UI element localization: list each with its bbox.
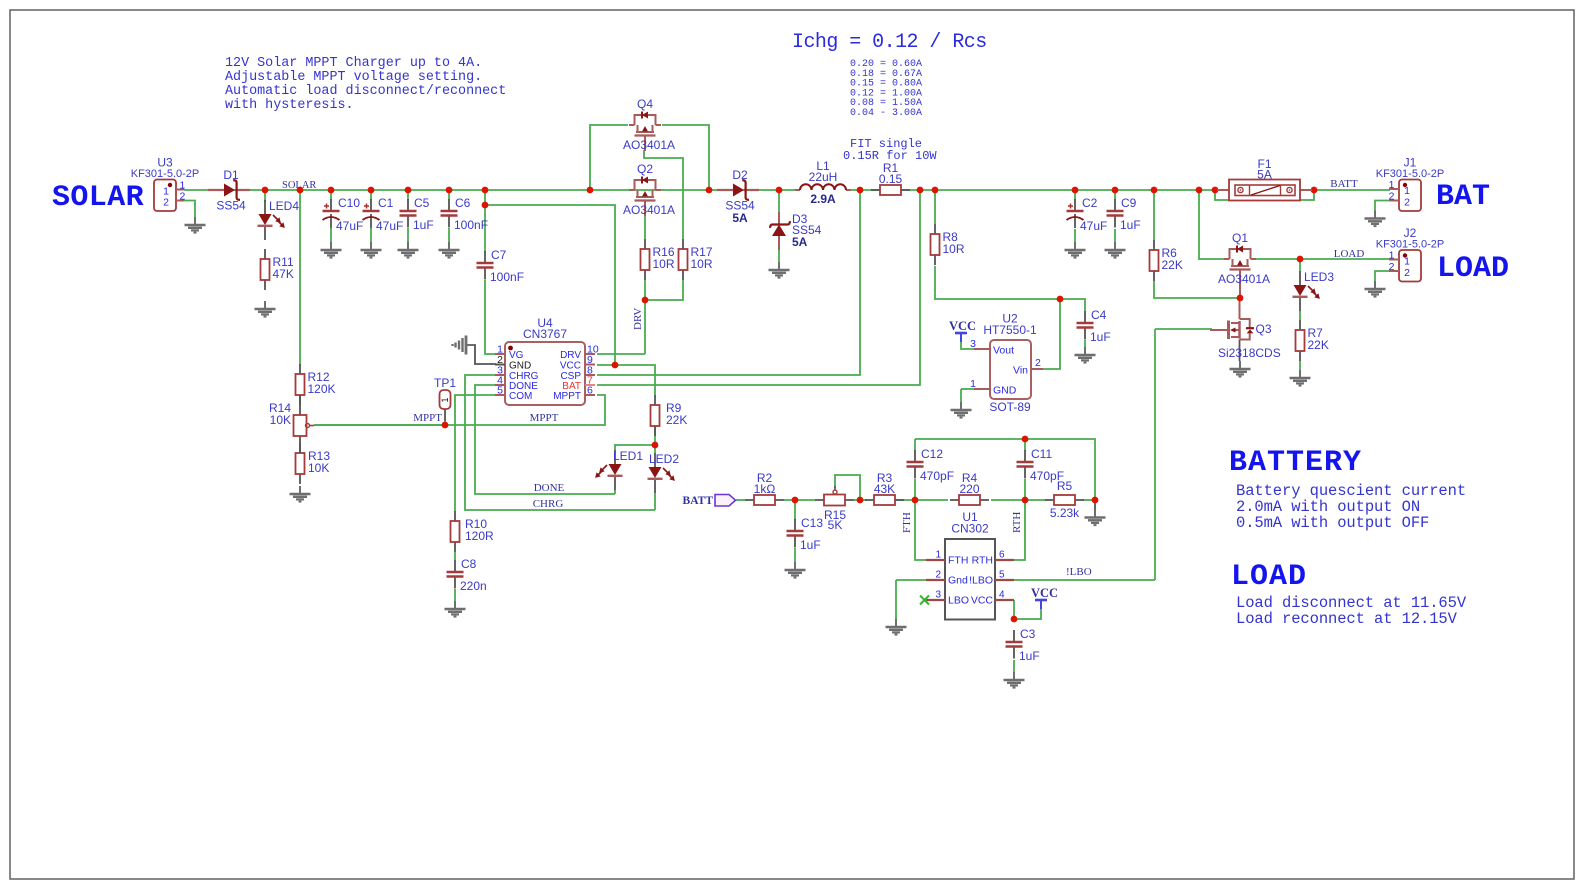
capacitor C13 1uF — [787, 516, 824, 552]
svg-text:2: 2 — [1035, 357, 1041, 369]
svg-text:3: 3 — [970, 338, 976, 350]
svg-text:1kΩ: 1kΩ — [754, 482, 776, 496]
svg-text:Gnd: Gnd — [948, 575, 968, 587]
diode D3 SS54 5A — [770, 212, 822, 250]
junction Q1 drop — [1196, 187, 1203, 194]
junction Q4 left — [587, 187, 594, 194]
wire R4 to R5 — [991, 499, 1046, 501]
wire D3 branch top — [778, 190, 780, 212]
wire feedback top loop — [915, 439, 1095, 500]
wire C2 stub — [1074, 190, 1076, 200]
wire R3 to R4 — [896, 499, 948, 501]
wire FTH drop — [915, 500, 926, 560]
wire C12 top — [914, 439, 916, 451]
connector J1 KF301-5.0-2P — [1376, 156, 1444, 212]
svg-text:5.23k: 5.23k — [1050, 506, 1080, 520]
svg-text:43K: 43K — [874, 482, 895, 496]
wire R15 wiper loop — [835, 475, 860, 500]
junction fuse left — [1212, 187, 1219, 194]
wire R16 bottom to DRV — [644, 280, 646, 354]
junction DRV node — [642, 297, 649, 304]
svg-text:LBO: LBO — [948, 595, 969, 607]
wire Vin drop — [1043, 299, 1060, 369]
svg-text:5A: 5A — [792, 235, 808, 249]
junction Q4 right — [706, 187, 713, 194]
svg-text:1uF: 1uF — [1090, 330, 1111, 344]
wire C6 to ground — [448, 228, 450, 242]
svg-text:22K: 22K — [666, 413, 687, 427]
wire MPPT wiper — [314, 424, 445, 426]
wire SOLAR net drop to R12 — [299, 190, 301, 365]
transistor Q1 AO3401A — [1224, 246, 1256, 286]
wire J1 pin2 to ground — [1375, 201, 1390, 212]
svg-text:47K: 47K — [273, 267, 294, 281]
wire C10 stub — [330, 190, 332, 200]
wire C6 stub — [448, 190, 450, 200]
ground U1 — [886, 619, 907, 635]
svg-text:3: 3 — [935, 590, 941, 601]
svg-text:1: 1 — [1404, 185, 1410, 197]
svg-text:TP1: TP1 — [434, 376, 456, 390]
ground C1 — [361, 242, 382, 258]
wire Q2 gate to R16 — [644, 214, 646, 239]
svg-text:1uF: 1uF — [1019, 649, 1040, 663]
transistor Q3 Si2318CDS — [1210, 319, 1281, 360]
transistor Q4 AO3401A — [629, 112, 661, 152]
wire RTH drop — [1014, 500, 1025, 560]
wire C8 to ground — [454, 589, 456, 601]
svg-text:2: 2 — [1404, 197, 1410, 209]
wire Q4 gate to R17 — [644, 150, 683, 239]
resistor R16 10R — [641, 239, 675, 280]
diode D1 SS54 — [208, 168, 250, 213]
wire LED1 to DONE — [614, 490, 616, 494]
wire Q1 gate to Q3 drain — [1239, 298, 1241, 319]
ground U3 — [185, 217, 206, 233]
svg-text:Vin: Vin — [1013, 365, 1028, 377]
svg-text:1: 1 — [440, 397, 450, 402]
ground C3 — [1004, 672, 1025, 688]
svg-text:5: 5 — [999, 570, 1005, 581]
wire LED3 branch — [1299, 259, 1301, 271]
svg-text:47uF: 47uF — [376, 219, 403, 233]
ground U2 — [951, 402, 972, 418]
ground Q3 — [1230, 361, 1251, 377]
svg-text:2: 2 — [1404, 267, 1410, 279]
svg-text:22uH: 22uH — [809, 170, 838, 184]
svg-text:BATT: BATT — [1330, 178, 1358, 190]
capacitor C3 1uF — [1006, 627, 1040, 663]
junction CSP tap — [857, 187, 864, 194]
wire U4 pin2 GND — [466, 345, 496, 364]
diode D2 SS54 5A — [717, 168, 759, 225]
svg-text:100nF: 100nF — [490, 270, 524, 284]
wire R8 bottom to C4 — [935, 266, 1085, 311]
wire R2 to R15 — [784, 499, 815, 501]
wire U1 pin4 VCC — [1013, 600, 1015, 619]
svg-text:1: 1 — [970, 378, 976, 390]
svg-text:C4: C4 — [1091, 308, 1107, 322]
junction R5 gnd — [1092, 497, 1099, 504]
svg-text:SS54: SS54 — [216, 199, 246, 213]
junction C13 — [792, 497, 799, 504]
wire Q3 source to ground — [1239, 340, 1241, 362]
transistor Q2 AO3401A — [629, 177, 661, 217]
wire C5 stub — [407, 190, 409, 200]
junction fuse right — [1311, 187, 1318, 194]
wire VCC net to U4 pin9 — [485, 205, 615, 365]
svg-text:12V Solar MPPT Charger up to 4: 12V Solar MPPT Charger up to 4A. — [225, 56, 482, 71]
capacitor C10 47uF — [323, 196, 364, 233]
wire U4 pin10 DRV — [597, 353, 645, 355]
wire R5 to ground node — [1083, 499, 1095, 501]
svg-text:4: 4 — [999, 590, 1005, 601]
svg-text:RTH: RTH — [1011, 512, 1023, 533]
svg-text:5A: 5A — [1257, 168, 1272, 182]
svg-text:MPPT: MPPT — [553, 391, 581, 402]
svg-text:C2: C2 — [1082, 196, 1098, 210]
svg-text:DONE: DONE — [534, 482, 565, 494]
svg-text:GND: GND — [993, 385, 1017, 397]
wire LED2 to CHRG — [654, 493, 656, 510]
junction C7-VCC — [482, 202, 489, 209]
ground C2 — [1065, 242, 1086, 258]
junction R6 top — [1151, 187, 1158, 194]
svg-text:VCC: VCC — [560, 361, 581, 372]
wire C4 to ground — [1084, 340, 1086, 347]
wire ground node stub — [1094, 500, 1096, 510]
svg-text:6: 6 — [999, 550, 1005, 561]
svg-text:5A: 5A — [732, 211, 748, 225]
svg-text:Automatic load disconnect/reco: Automatic load disconnect/reconnect — [225, 84, 506, 99]
junction MPPT — [442, 422, 449, 429]
junction FTH — [912, 497, 919, 504]
wire junction to LED2 — [654, 445, 656, 453]
capacitor C8 220n — [447, 557, 487, 593]
resistor R9 22K — [651, 395, 688, 436]
LED LED4 — [258, 199, 300, 240]
svg-text:D2: D2 — [732, 168, 748, 182]
wire C3 to ground — [1013, 660, 1015, 672]
ground R5 — [1085, 510, 1106, 526]
wire U1 pin5 LBO out — [1014, 579, 1155, 581]
resistor R1 0.15 — [871, 161, 910, 195]
ground C9 — [1105, 242, 1126, 258]
svg-text:!LBO: !LBO — [969, 575, 993, 587]
wire C9 to ground — [1114, 229, 1116, 242]
wire U2 GND to ground — [960, 389, 962, 402]
svg-text:C13: C13 — [801, 516, 823, 530]
resistor R8 10R — [931, 224, 965, 265]
wire TP1 stub — [444, 421, 446, 425]
wire SOLAR rail right — [846, 189, 1390, 191]
BATT net flag — [715, 495, 736, 507]
wire U1 Gnd to ground — [895, 580, 897, 620]
svg-text:10R: 10R — [691, 257, 713, 271]
LED LED1 — [595, 449, 643, 490]
ground J2 — [1365, 281, 1386, 297]
svg-text:C7: C7 — [491, 248, 507, 262]
regulator U2 HT7550-1 — [970, 312, 1043, 415]
capacitor C12 470pF — [907, 447, 955, 483]
wire Q1 source drop — [1199, 190, 1224, 259]
wire U3 pin2 to ground — [184, 201, 195, 218]
wire Q4 source loop — [590, 125, 628, 190]
junction C7 — [482, 187, 489, 194]
junction C3-VCC — [1011, 616, 1018, 623]
ground LED4-R11 — [255, 301, 276, 317]
op-amp U4 CN3767 charger IC — [495, 316, 599, 405]
svg-text:KF301-5.0-2P: KF301-5.0-2P — [1376, 168, 1444, 180]
wire C10 to ground — [330, 228, 332, 242]
svg-text:AO3401A: AO3401A — [1218, 272, 1270, 286]
svg-text:1uF: 1uF — [1120, 218, 1141, 232]
wire C2 to ground — [1074, 229, 1076, 242]
svg-text:LED2: LED2 — [649, 452, 679, 466]
capacitor C9 1uF — [1107, 196, 1141, 232]
svg-text:BATT: BATT — [683, 495, 714, 507]
wire Q1 gate link — [1239, 270, 1241, 298]
svg-text:22K: 22K — [1308, 338, 1329, 352]
resistor R3 43K — [865, 471, 904, 505]
junction C6 — [446, 187, 453, 194]
wire C12 bottom — [914, 479, 916, 500]
svg-text:0.15: 0.15 — [879, 172, 903, 186]
ground D3 — [769, 262, 790, 278]
junction C5 — [405, 187, 412, 194]
wire Q3 gate from LBO — [1155, 328, 1212, 330]
svg-text:HT7550-1: HT7550-1 — [983, 323, 1037, 337]
ground LED3 — [1290, 370, 1311, 386]
svg-text:2: 2 — [163, 197, 169, 209]
svg-text:with hysteresis.: with hysteresis. — [225, 98, 354, 113]
capacitor C6 100nF — [441, 196, 489, 232]
svg-text:Adjustable MPPT voltage settin: Adjustable MPPT voltage setting. — [225, 70, 482, 85]
ground C6 — [439, 242, 460, 258]
svg-text:GND: GND — [509, 361, 531, 372]
wire R10 to C8 — [454, 552, 456, 560]
capacitor C1 47uF — [363, 196, 404, 233]
svg-text:C12: C12 — [921, 447, 943, 461]
svg-text:SOLAR: SOLAR — [52, 181, 144, 215]
svg-text:6: 6 — [587, 385, 593, 397]
junction R8 top — [932, 187, 939, 194]
svg-text:LED1: LED1 — [613, 449, 643, 463]
svg-text:Si2318CDS: Si2318CDS — [1218, 346, 1281, 360]
svg-text:1: 1 — [1389, 250, 1395, 262]
junction VCC pin9 — [612, 362, 619, 369]
comparator U1 CN302 — [926, 510, 1014, 620]
junction R15 out — [857, 497, 864, 504]
resistor R12 120K — [296, 364, 336, 405]
junction LOAD-LED3 — [1297, 256, 1304, 263]
wire R6 drop — [1153, 190, 1155, 240]
svg-text:C6: C6 — [455, 196, 471, 210]
svg-text:10K: 10K — [308, 461, 329, 475]
wire U4 pin9 VCC to R9 — [597, 365, 655, 395]
connector U3 KF301-5.0-2P — [131, 156, 199, 212]
svg-text:MPPT: MPPT — [413, 412, 442, 424]
wire LED3 to R7 — [1299, 311, 1301, 320]
svg-text:120K: 120K — [308, 382, 336, 396]
svg-text:Q4: Q4 — [637, 97, 653, 111]
svg-text:BATTERY: BATTERY — [1229, 446, 1362, 480]
wire C1 to ground — [370, 228, 372, 242]
fuse F1 5A — [1217, 157, 1312, 201]
svg-text:AO3401A: AO3401A — [623, 138, 675, 152]
wire U4 pin7 BAT sense — [597, 190, 920, 385]
svg-text:KF301-5.0-2P: KF301-5.0-2P — [131, 168, 199, 180]
wire fuse bypass loop — [1215, 190, 1314, 200]
wire VCC hook — [1014, 609, 1041, 619]
wire U4 pin8 CSP sense — [597, 190, 860, 375]
capacitor C11 470pF — [1017, 447, 1065, 483]
wire VCC drop C7 — [484, 190, 486, 252]
ground J1 — [1365, 211, 1386, 227]
wire R7 to ground — [1299, 361, 1301, 370]
junction C10 — [328, 187, 335, 194]
junction C4 node — [1057, 296, 1064, 303]
wire U2 GND pin — [961, 388, 975, 390]
VCC symbol U2 — [955, 333, 967, 342]
wire C13 to ground — [794, 548, 796, 562]
ground R13 — [290, 486, 311, 502]
svg-text:47uF: 47uF — [336, 219, 363, 233]
svg-text:FTH: FTH — [948, 555, 968, 567]
svg-text:10K: 10K — [270, 413, 291, 427]
wire U4 pin4 DONE route — [475, 385, 615, 494]
wire BATT flag to R2 — [736, 499, 745, 501]
wire C1 stub — [370, 190, 372, 200]
svg-text:COM: COM — [509, 391, 532, 402]
svg-text:10R: 10R — [943, 242, 965, 256]
wire C11 bottom — [1024, 479, 1026, 500]
wire LED4 branch — [264, 190, 266, 202]
svg-text:47uF: 47uF — [1080, 219, 1107, 233]
resistor R5 5.23k — [1045, 479, 1084, 520]
svg-text:LOAD: LOAD — [1334, 248, 1365, 260]
svg-text:RTH: RTH — [972, 555, 993, 567]
svg-text:AO3401A: AO3401A — [623, 203, 675, 217]
svg-text:2: 2 — [1389, 191, 1395, 203]
svg-text:CN3767: CN3767 — [523, 327, 567, 341]
svg-text:1: 1 — [1404, 256, 1410, 268]
junction C9 — [1112, 187, 1119, 194]
svg-text:KF301-5.0-2P: KF301-5.0-2P — [1376, 239, 1444, 251]
wire Q1 drain to LOAD — [1256, 258, 1390, 260]
capacitor C2 47uF — [1067, 196, 1108, 233]
ground C4 — [1075, 347, 1096, 363]
svg-text:22K: 22K — [1162, 258, 1183, 272]
wire Q4 drain loop — [662, 125, 709, 190]
wire J2 pin2 to ground — [1375, 271, 1390, 282]
svg-text:C1: C1 — [378, 196, 394, 210]
svg-text:220n: 220n — [460, 579, 487, 593]
wire U4 pin5 COM to R10 — [455, 395, 496, 511]
svg-text:SOT-89: SOT-89 — [989, 400, 1031, 414]
testpoint TP1 — [434, 376, 456, 421]
ground C13 — [785, 562, 806, 578]
wire junction to LED1 — [615, 445, 655, 450]
svg-text:2: 2 — [1389, 261, 1395, 273]
svg-text:C3: C3 — [1020, 627, 1036, 641]
junction BAT tap — [917, 187, 924, 194]
svg-text:C8: C8 — [461, 557, 477, 571]
wire C9 stub — [1114, 190, 1116, 200]
junction D1-LED4 — [262, 187, 269, 194]
svg-text:C9: C9 — [1121, 196, 1137, 210]
svg-text:DRV: DRV — [632, 308, 644, 330]
junction SOLAR — [297, 187, 304, 194]
svg-text:FTH: FTH — [901, 512, 913, 533]
wire C5 to ground — [407, 228, 409, 242]
svg-text:C5: C5 — [414, 196, 430, 210]
wire U1 Gnd pin2 — [896, 579, 926, 581]
LED LED3 — [1293, 270, 1335, 311]
svg-text:Q1: Q1 — [1232, 231, 1248, 245]
svg-text:CN302: CN302 — [951, 522, 989, 536]
svg-text:VCC: VCC — [971, 595, 994, 607]
svg-text:!LBO: !LBO — [1066, 566, 1092, 578]
svg-text:LED4: LED4 — [269, 199, 299, 213]
ground C5 — [398, 242, 419, 258]
svg-text:C10: C10 — [338, 196, 360, 210]
wire LBO vertical — [1154, 329, 1156, 580]
ground U4 GND arrow — [453, 336, 475, 355]
svg-text:1: 1 — [935, 550, 941, 561]
svg-text:BAT: BAT — [1436, 180, 1490, 214]
capacitor C7 100nF — [477, 248, 525, 284]
resistor R13 10K — [296, 443, 331, 484]
svg-text:0.5mA with output OFF: 0.5mA with output OFF — [1236, 514, 1429, 532]
wire SOLAR rail left — [184, 189, 800, 191]
svg-text:Q3: Q3 — [1256, 322, 1272, 336]
resistor R7 22K — [1296, 320, 1329, 361]
ground C8 — [445, 601, 466, 617]
resistor R17 10R — [679, 239, 713, 280]
wire U4 pin6 MPPT loop — [314, 395, 605, 425]
junction LED node — [652, 442, 659, 449]
no-connect X on U1 pin3 — [920, 596, 929, 605]
svg-text:Vout: Vout — [993, 345, 1014, 357]
wire R17 bottom — [647, 280, 683, 300]
wire R9 to LEDs junction — [654, 426, 656, 445]
svg-text:LED3: LED3 — [1304, 270, 1334, 284]
svg-text:Q2: Q2 — [637, 162, 653, 176]
svg-text:5: 5 — [497, 385, 503, 397]
svg-text:1uF: 1uF — [413, 218, 434, 232]
connector J2 KF301-5.0-2P — [1376, 226, 1444, 282]
resistor R11 47K — [261, 249, 294, 290]
svg-text:0.04 - 3.00A: 0.04 - 3.00A — [850, 108, 922, 119]
svg-text:120R: 120R — [465, 529, 494, 543]
wire VCC symbol to Vout — [961, 342, 975, 349]
resistor R2 1kΩ — [745, 471, 784, 505]
junction RTH — [1022, 497, 1029, 504]
svg-text:LOAD: LOAD — [1231, 560, 1307, 594]
svg-text:2: 2 — [935, 570, 941, 581]
svg-text:Load reconnect at 12.15V: Load reconnect at 12.15V — [1236, 610, 1458, 628]
wire C13 drop — [794, 500, 796, 520]
wire R6 bottom to Q1 gate — [1154, 281, 1240, 298]
LED LED2 — [648, 452, 680, 493]
capacitor C4 1uF — [1077, 308, 1111, 344]
svg-text:SOLAR: SOLAR — [282, 180, 316, 191]
capacitor C5 1uF — [400, 196, 434, 232]
wire U4 pin3 CHRG route — [465, 375, 655, 510]
svg-text:VG: VG — [509, 350, 524, 361]
wire C11 top — [1024, 439, 1026, 451]
